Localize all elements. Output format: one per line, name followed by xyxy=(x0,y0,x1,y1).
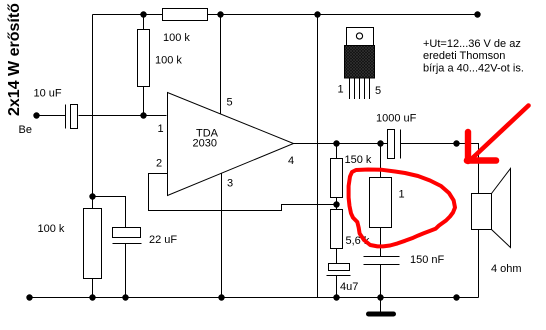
node dot output R5 xyxy=(333,140,339,146)
svg-text:1: 1 xyxy=(338,84,344,96)
wire C1 to pin 1 xyxy=(79,115,167,117)
node dot ground terminal xyxy=(26,294,32,300)
red arrow head horizontal bar xyxy=(467,157,496,164)
wire bottom ground rail xyxy=(30,297,479,299)
capacitor C4 1000uF output xyxy=(388,130,401,159)
node dot A xyxy=(89,193,95,199)
node dot output speaker xyxy=(453,140,459,146)
resistor R2 100k horizontal xyxy=(163,9,208,21)
svg-text:Be: Be xyxy=(19,124,32,136)
resistor R7 1 ohm xyxy=(370,178,392,228)
node dot C5 ground xyxy=(333,294,339,300)
capacitor C6 150nF xyxy=(364,257,400,265)
wire R4 to bottom rail xyxy=(92,279,94,298)
svg-text:150 k: 150 k xyxy=(345,154,372,166)
red arrow head vertical bar xyxy=(465,132,471,161)
svg-text:bírja a 40...42V-ot is.: bírja a 40...42V-ot is. xyxy=(423,63,524,75)
svg-text:2x14 W erősítő: 2x14 W erősítő xyxy=(6,3,23,116)
node dot +Ut terminal xyxy=(474,11,480,17)
node dot 22uF ground xyxy=(122,294,128,300)
note +Ut supply text xyxy=(423,38,524,75)
wire C4 to speaker xyxy=(401,144,479,194)
svg-text:22 uF: 22 uF xyxy=(149,234,177,246)
wire pin 3 to ground xyxy=(221,173,223,298)
resistor R5 150k xyxy=(331,159,343,198)
wire top supply rail xyxy=(93,14,478,16)
wire left vertical from top rail xyxy=(92,15,94,197)
svg-text:+Ut=12...36 V de az: +Ut=12...36 V de az xyxy=(423,38,521,50)
ground xyxy=(366,312,396,317)
svg-text:100 k: 100 k xyxy=(38,223,65,235)
node dot pin3 ground xyxy=(218,294,224,300)
node dot C6 ground xyxy=(377,294,383,300)
wire R5 to node B xyxy=(336,198,338,210)
op-amp U1 TDA2030 xyxy=(168,93,294,196)
resistor R1 100k vertical xyxy=(138,30,150,87)
label TDA 2030 xyxy=(193,128,219,150)
wire 22uF to bottom rail xyxy=(125,244,127,298)
svg-text:150 nF: 150 nF xyxy=(410,254,445,266)
svg-text:100 k: 100 k xyxy=(155,55,182,67)
wire ground stub xyxy=(380,298,382,312)
svg-text:3: 3 xyxy=(227,178,233,190)
wire pin 2 feedback xyxy=(149,174,337,211)
node dot pin5 top xyxy=(217,11,223,17)
wire long vertical rail xyxy=(317,15,319,298)
svg-text:2: 2 xyxy=(156,158,162,170)
node dot long rail top xyxy=(314,11,320,17)
wire input Be to C1 xyxy=(37,115,66,117)
svg-text:1: 1 xyxy=(158,123,164,135)
node dot R4 ground xyxy=(89,294,95,300)
wire output pin 4 xyxy=(294,143,388,145)
wire R5 top lead xyxy=(336,144,338,159)
wire C6 to bottom rail xyxy=(380,265,382,298)
red circle highlight around R7 xyxy=(349,170,455,247)
speaker LS1 xyxy=(472,169,511,248)
wire R7 top lead xyxy=(380,144,382,178)
wire R1 bottom lead xyxy=(143,87,145,116)
svg-text:100 k: 100 k xyxy=(163,32,190,44)
svg-text:eredeti Thomson: eredeti Thomson xyxy=(423,50,505,62)
wire speaker to bottom rail xyxy=(478,230,480,298)
red arrow shaft xyxy=(473,106,529,159)
capacitor C1 10uF input xyxy=(66,105,78,129)
node dot pin1 bias xyxy=(140,112,146,118)
wire R6 to C5 xyxy=(336,249,338,264)
wire pin 5 supply xyxy=(220,15,222,115)
svg-text:5: 5 xyxy=(375,85,381,97)
svg-text:10 uF: 10 uF xyxy=(34,88,62,100)
node dot R1 top xyxy=(140,11,146,17)
node dot input Be xyxy=(33,112,39,118)
wire node A to 22uF branch xyxy=(93,197,126,228)
resistor R4 100k bottom-left xyxy=(84,209,102,279)
node dot B feedback xyxy=(333,201,339,207)
svg-text:4 ohm: 4 ohm xyxy=(491,263,522,275)
capacitor C2 22uF xyxy=(113,228,142,244)
svg-text:1: 1 xyxy=(399,189,405,201)
IC package TO-220 body xyxy=(345,46,375,79)
IC package TO-220 tab xyxy=(347,28,374,46)
node dot speaker ground xyxy=(453,294,459,300)
svg-text:1000 uF: 1000 uF xyxy=(376,113,417,125)
svg-text:2030: 2030 xyxy=(193,138,217,150)
wire C5 to bottom rail xyxy=(336,276,338,298)
resistor R6 5.6k xyxy=(331,210,343,249)
svg-text:4u7: 4u7 xyxy=(340,281,358,293)
node dot output R7 xyxy=(377,140,383,146)
wire node A to R4 xyxy=(92,197,94,209)
wire R7 to C6 xyxy=(380,228,382,257)
wire R1 top lead xyxy=(143,15,145,30)
IC package TO-220 pins xyxy=(350,78,370,99)
svg-text:4: 4 xyxy=(288,155,294,167)
svg-text:5: 5 xyxy=(227,97,233,109)
capacitor C5 4u7 xyxy=(327,264,351,276)
